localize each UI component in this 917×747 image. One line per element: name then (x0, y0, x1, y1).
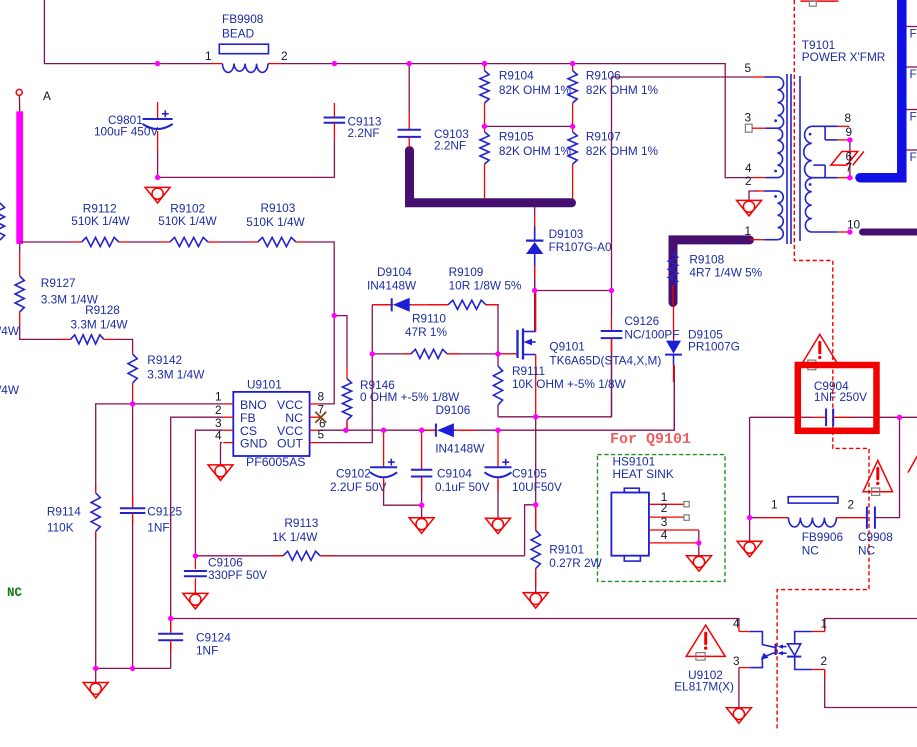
svg-text:NC: NC (802, 544, 820, 558)
ground (heat sink) (687, 556, 712, 572)
svg-text:R9113: R9113 (284, 516, 318, 530)
capacitor C9105 (485, 430, 562, 494)
pin 7 (838, 161, 852, 178)
pin 2 (745, 174, 764, 191)
junction node at (535.7,504.8) (533, 502, 538, 507)
wire: C9125 leads (132, 404, 134, 669)
svg-text:IN4148W: IN4148W (367, 278, 417, 292)
wire: opto pin1 rail (825, 619, 917, 632)
svg-text:3: 3 (733, 654, 740, 668)
pin 3 (745, 111, 766, 133)
resistor R9112 (71, 201, 131, 246)
capacitor C9908 (836, 506, 893, 557)
wire: pin9 to pin7 tie (849, 140, 851, 178)
wire: transformer pin2 ground jog (749, 191, 758, 200)
resistor R9110 (403, 312, 460, 359)
svg-text:D9106: D9106 (436, 403, 471, 417)
svg-text:R9114: R9114 (47, 505, 81, 519)
wire: C9105 ground lead (497, 480, 499, 518)
svg-text:4: 4 (733, 617, 740, 631)
wire: pin3 CS vertical (195, 430, 223, 553)
T9101 secondary winding 8-7 (804, 126, 838, 177)
wire: heatsink pin3/4 join (698, 530, 700, 556)
svg-text:VCC: VCC (277, 398, 303, 412)
junction node at (534.7,290.5) (532, 288, 537, 293)
svg-text:4: 4 (661, 528, 668, 542)
resistor R9105 (480, 126, 572, 199)
cut-off label /4W (0, 324, 20, 338)
junction node at (749.6,517.6) (747, 515, 752, 520)
svg-text:2.2NF: 2.2NF (348, 126, 380, 140)
diode D9106 (422, 403, 486, 455)
svg-text:9: 9 (846, 125, 853, 139)
junction node at (157.6,177.4) (155, 175, 160, 180)
svg-text:R9110: R9110 (412, 312, 446, 326)
wire: C9904 row (750, 417, 917, 517)
svg-text:BNO: BNO (240, 398, 267, 412)
resistor R9109 (448, 265, 522, 310)
svg-text:NC/100PF: NC/100PF (624, 328, 679, 342)
wire: R9101 top jog (525, 417, 536, 556)
svg-text:0.27R 2W: 0.27R 2W (549, 556, 602, 570)
thick wire pin7 output (blue) (860, 0, 902, 178)
wire: pin 5 rail (612, 77, 751, 291)
svg-text:1NF: 1NF (196, 644, 218, 658)
junction node at (849.9,232) (847, 229, 852, 234)
ground (C9801) (145, 187, 170, 203)
svg-text:3.3M 1/4W: 3.3M 1/4W (147, 368, 205, 382)
pin 6 label (846, 149, 853, 163)
junction node at (698.8,542.9) (696, 540, 701, 545)
svg-text:1: 1 (205, 49, 212, 63)
transistor Q9101 (498, 291, 661, 417)
wire: pin2 FB vertical (171, 417, 224, 616)
cut-off warning at top edge (800, 1, 838, 6)
svg-text:5: 5 (318, 427, 325, 441)
wire: R9142 to pin1 row (96, 404, 224, 669)
svg-text:8: 8 (318, 390, 325, 404)
svg-text:10K OHM +-5% 1/8W: 10K OHM +-5% 1/8W (512, 377, 627, 391)
partial warning at right edge (908, 455, 917, 473)
wire: R9111 hang (497, 354, 499, 417)
resistor R9127 (15, 252, 99, 324)
transformer core (787, 74, 800, 244)
wire: R9127 branch (20, 244, 133, 352)
svg-text:HEAT SINK: HEAT SINK (613, 467, 674, 481)
svg-text:4: 4 (215, 428, 222, 442)
ferrite bead FB9906 (750, 497, 854, 558)
svg-text:1: 1 (215, 390, 222, 404)
svg-text:8: 8 (845, 111, 852, 125)
wire: R9103 to R9146 jog and pin8 riser (320, 316, 347, 404)
resistor R9142 (128, 351, 205, 404)
pin 1 (745, 224, 765, 240)
svg-text:F: F (910, 150, 917, 164)
wire: R9101 ground lead (535, 569, 537, 593)
svg-text:R9103: R9103 (261, 201, 296, 215)
svg-text:PR1007G: PR1007G (688, 340, 740, 354)
junction node at (383.6,430.2) (381, 428, 386, 433)
T9101 primary winding 2-1 (764, 191, 783, 240)
junction node at (157.6,63.6) (155, 61, 160, 66)
svg-text:10: 10 (847, 217, 861, 231)
pin 10 (838, 217, 861, 232)
svg-text:C9105: C9105 (512, 466, 547, 480)
cut-off label /4W lower (0, 383, 20, 397)
svg-text:A: A (43, 89, 51, 103)
junction node at (484.5,63.6) (482, 61, 487, 66)
svg-text:2: 2 (281, 49, 288, 63)
optocoupler U9102 (674, 617, 827, 694)
svg-text:R9101: R9101 (549, 543, 584, 557)
resistor R9128 (60, 303, 128, 344)
capacitor C9124 (158, 619, 231, 658)
svg-text:0.1uF 50V: 0.1uF 50V (435, 480, 490, 494)
svg-text:/4W: /4W (0, 324, 20, 338)
svg-text:C9125: C9125 (147, 505, 182, 519)
wire: D9105 bottom drop (673, 365, 675, 430)
wire: top rail from node down and across to pin 4 (44, 0, 751, 178)
pin 5 (745, 61, 765, 77)
wire: source row (498, 340, 612, 417)
svg-text:47R 1%: 47R 1% (405, 325, 447, 339)
svg-text:3: 3 (745, 111, 752, 125)
resistor R9146 (342, 366, 460, 430)
svg-text:2.2NF: 2.2NF (434, 139, 466, 153)
ground (C9104) (409, 518, 434, 534)
capacitor C9104 (411, 430, 490, 494)
junction node at (334.4,63.6) (332, 61, 337, 66)
svg-text:OUT: OUT (277, 436, 303, 450)
diode D9103 (526, 207, 612, 291)
svg-text:5: 5 (745, 61, 752, 75)
svg-text:1: 1 (745, 224, 752, 238)
net stub F1 (906, 27, 917, 41)
svg-text:7: 7 (846, 161, 853, 175)
svg-text:C9104: C9104 (437, 466, 472, 480)
svg-text:2: 2 (745, 174, 752, 188)
pin 9 (838, 125, 852, 140)
svg-text:R9104: R9104 (499, 68, 534, 82)
junction node at (572.6,126.4) (570, 124, 575, 129)
junction node at (849.9,139.9) (847, 137, 852, 142)
node A terminal (16, 89, 51, 111)
svg-text:C9908: C9908 (858, 530, 893, 544)
svg-text:4: 4 (745, 161, 752, 175)
svg-text:0 OHM +-5% 1/8W: 0 OHM +-5% 1/8W (360, 390, 460, 404)
junction node at (849.9,177.7) (847, 175, 852, 180)
wire: VCC row pin6 to D9105 (320, 382, 675, 430)
svg-text:1NF: 1NF (147, 520, 169, 534)
svg-text:R9106: R9106 (586, 68, 621, 82)
svg-text:TK6A65D(STA4,X,M): TK6A65D(STA4,X,M) (549, 353, 661, 367)
svg-text:C9126: C9126 (624, 314, 659, 328)
svg-text:4R7 1/4W 5%: 4R7 1/4W 5% (689, 266, 762, 280)
svg-text:R9127: R9127 (41, 276, 76, 290)
wire: CS row to R9113 (195, 555, 524, 557)
wire: 510K divider row (20, 242, 335, 316)
svg-text:330PF 50V: 330PF 50V (208, 568, 267, 582)
ground (T9101 pin 2) (737, 200, 762, 216)
junction node at (899.5,417.3) (897, 415, 902, 420)
resistor R9103 (246, 201, 306, 247)
svg-text:Q9101: Q9101 (549, 339, 584, 353)
svg-text:C9102: C9102 (336, 466, 371, 480)
junction node at (421.6,430.2) (419, 428, 424, 433)
svg-text:82K OHM 1%: 82K OHM 1% (499, 83, 572, 97)
resistor R9114 (47, 486, 100, 538)
isolation boundary (red dashed) (777, 0, 869, 731)
svg-text:1: 1 (771, 498, 778, 512)
capacitor C9126 (601, 314, 680, 352)
wire: C9103 top (408, 64, 410, 115)
heat sink enclosure HS9101 (green dashed box) (598, 455, 726, 582)
net stub F4 (906, 150, 917, 164)
ground (C9106) (183, 593, 208, 609)
thick wire pin10 output (purple) (863, 229, 917, 236)
svg-text:R9111: R9111 (512, 364, 545, 378)
wire: opto pin2 rail (825, 670, 917, 708)
svg-text:F: F (910, 110, 917, 124)
svg-text:IN4148W: IN4148W (435, 441, 485, 455)
svg-text:R9108: R9108 (689, 253, 724, 267)
svg-text:2: 2 (848, 498, 855, 512)
pin 4 (745, 161, 765, 178)
svg-text:R9107: R9107 (586, 129, 621, 143)
node A input bar (magenta) (16, 111, 23, 244)
wire: C9126 bottom lead (611, 338, 613, 417)
svg-text:510K 1/4W: 510K 1/4W (246, 215, 305, 229)
svg-text:BEAD: BEAD (222, 27, 254, 41)
heat sink HS9101 (611, 455, 698, 562)
svg-text:EL817M(X): EL817M(X) (674, 680, 734, 694)
warning symbol (C9908) (863, 460, 892, 495)
junction node at (170.7,618.5) (168, 616, 173, 621)
wire: C9904 right drop to C9908 (886, 417, 900, 517)
resistor R9102 (158, 201, 218, 246)
svg-text:C9124: C9124 (196, 631, 231, 645)
thick wire pin1 to R9108 (purple) (673, 240, 750, 303)
svg-text:2.2UF 50V: 2.2UF 50V (330, 480, 387, 494)
svg-text:110K: 110K (47, 520, 74, 534)
svg-text:2: 2 (661, 501, 668, 515)
wire: gate row R9110 (372, 353, 517, 355)
svg-text:2: 2 (215, 403, 222, 417)
junction node at (498,353.9) (495, 351, 500, 356)
ground (FB9906 input) (737, 541, 762, 557)
junction node at (345.9,430.2) (343, 428, 348, 433)
transformer T9101 label (802, 38, 886, 64)
junction node at (498,430.2) (495, 428, 500, 433)
highlight box (C9904) (798, 365, 877, 431)
pin 8 (838, 111, 852, 126)
ground (U9102 pin 3) (726, 708, 751, 724)
svg-text:R9128: R9128 (85, 303, 120, 317)
ground (U9101 GND pin) (208, 465, 233, 481)
svg-text:10UF50V: 10UF50V (512, 480, 562, 494)
wire: pin4 GND drop (221, 443, 223, 465)
svg-text:FB9906: FB9906 (802, 530, 844, 544)
ferrite bead FB9908 (205, 12, 288, 72)
capacitor C9103 (398, 115, 470, 153)
svg-text:R9105: R9105 (499, 129, 534, 143)
junction node at (484.5,126.4) (482, 124, 487, 129)
svg-text:GND: GND (240, 436, 267, 450)
wire: R9146 bottom lead (346, 422, 348, 430)
diode D9105 (665, 307, 740, 382)
wire: FB9906 ground lead (749, 518, 751, 542)
ground (R9101) (523, 593, 548, 609)
svg-text:/4W: /4W (0, 383, 20, 397)
junction node at (611.5,290.5) (609, 288, 614, 293)
polarity mark (red parallelogram) (831, 152, 864, 166)
capacitor C9113 (324, 103, 382, 140)
ground (bottom-left rail) (83, 683, 108, 699)
junction node at (535.7,416.8) (533, 414, 538, 419)
junction node at (334.2,315.6) (332, 313, 337, 318)
wire: FB9906 row (750, 517, 886, 519)
svg-text:POWER X'FMR: POWER X'FMR (802, 50, 886, 64)
wire: C9106 ground lead (194, 578, 196, 593)
svg-text:510K 1/4W: 510K 1/4W (71, 214, 130, 228)
resistor R9113 (271, 516, 333, 560)
resistor R9106 (568, 64, 659, 127)
svg-text:R9142: R9142 (147, 353, 182, 367)
wire: snubber row D9103 to C9126 (535, 264, 612, 332)
svg-text:PF6005AS: PF6005AS (246, 455, 305, 469)
wire: C9801/C9113 bottom link (158, 140, 335, 177)
svg-text:82K OHM 1%: 82K OHM 1% (499, 144, 572, 158)
net stub F3 (906, 110, 917, 124)
note For Q9101 (610, 431, 691, 448)
junction node at (409.2,63.6) (407, 61, 412, 66)
svg-text:F: F (910, 67, 917, 81)
resistor R9101 (531, 505, 603, 586)
svg-text:FR107G-A0: FR107G-A0 (549, 240, 612, 254)
cut-off resistor at left edge (0, 203, 5, 240)
svg-text:FB9908: FB9908 (222, 12, 264, 26)
svg-text:2: 2 (821, 654, 828, 668)
svg-text:NC: NC (7, 586, 23, 600)
svg-text:510K 1/4W: 510K 1/4W (158, 214, 217, 228)
capacitor C9904 (813, 379, 868, 426)
thick bus wire (C9103 to primary snubber, purple) (410, 151, 572, 203)
svg-text:1: 1 (821, 617, 828, 631)
warning symbol (U9102) (686, 625, 725, 660)
wire: D9104/R9109 row (372, 305, 498, 354)
capacitor C9102 (330, 430, 397, 494)
svg-text:3.3M 1/4W: 3.3M 1/4W (71, 318, 129, 332)
resistor R9111 (493, 364, 626, 405)
junction node at (132.6,668.4) (130, 666, 135, 671)
diode D9104 (367, 265, 448, 312)
net stub F2 (906, 67, 917, 81)
wire: drain link (534, 291, 536, 332)
T9101 primary winding 3-4 (765, 128, 783, 177)
svg-text:D9104: D9104 (377, 265, 412, 279)
svg-text:R9109: R9109 (449, 265, 484, 279)
capacitor C9106 (184, 556, 267, 583)
junction node at (195.4,555.8) (193, 553, 198, 558)
capacitor C9801 (94, 102, 173, 151)
wire: divider mid row (485, 125, 573, 127)
wire: C9102/C9104 bottom link (384, 479, 422, 518)
ground (C9105) (486, 518, 511, 534)
svg-text:1NF 250V: 1NF 250V (814, 390, 867, 404)
NC marker (green) (7, 586, 23, 600)
capacitor C9125 (120, 495, 183, 534)
wire: OUT riser (320, 305, 373, 443)
wire: C9124 segment (170, 619, 172, 669)
svg-text:U9101: U9101 (247, 377, 282, 391)
junction node at (372.25,353.9) (370, 351, 375, 356)
resistor R9107 (568, 126, 659, 199)
svg-text:82K OHM 1%: 82K OHM 1% (586, 83, 659, 97)
wire: opto pin3 ground lead (738, 668, 740, 708)
resistor R9108 (668, 253, 762, 307)
junction node at (572.6,63.6) (570, 61, 575, 66)
svg-text:FB: FB (240, 411, 256, 425)
svg-text:NC: NC (858, 544, 876, 558)
junction node at (421.6,505.2) (419, 503, 424, 508)
resistor R9104 (480, 64, 572, 127)
op-amp U9101 (PF6005AS controller) (215, 377, 326, 468)
svg-text:NC: NC (285, 411, 303, 425)
junction node at (95.7,668.4) (93, 666, 98, 671)
svg-text:1K 1/4W: 1K 1/4W (272, 530, 318, 544)
svg-text:100uF 450V: 100uF 450V (94, 125, 158, 139)
svg-text:For Q9101: For Q9101 (610, 431, 691, 448)
wire: bottom-left join rail (96, 668, 171, 682)
wire: bottom rail to opto pin4 (171, 619, 739, 627)
svg-text:F: F (910, 27, 917, 41)
T9101 secondary winding 10 (805, 178, 837, 232)
wire: C9106 hang (194, 556, 196, 569)
svg-text:10R 1/8W 5%: 10R 1/8W 5% (449, 278, 522, 292)
no-connect X on pin 7 (315, 412, 326, 423)
junction node at (132.6,403.9) (130, 401, 135, 406)
T9101 primary winding 5-3 (764, 77, 784, 128)
svg-text:82K OHM 1%: 82K OHM 1% (586, 144, 659, 158)
warning symbol (C9904) (801, 334, 838, 369)
